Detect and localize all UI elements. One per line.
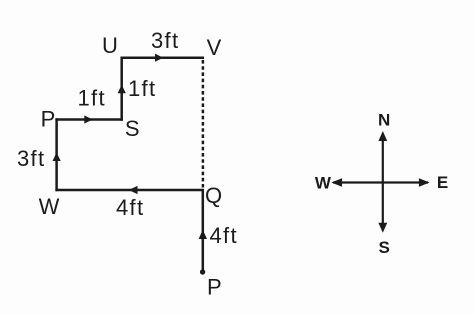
svg-text:E: E (437, 173, 448, 192)
compass horizontal line (333, 181, 428, 183)
svg-text:S: S (379, 238, 390, 257)
wire P(left) to S (55, 118, 123, 121)
svg-text:S: S (125, 116, 140, 141)
arrow right on U-V (155, 54, 163, 62)
svg-text:V: V (207, 35, 222, 60)
svg-text:3ft: 3ft (17, 146, 45, 171)
wire W to P(left) (55, 118, 58, 191)
wire S to U (120, 57, 123, 121)
svg-text:Q: Q (205, 183, 222, 208)
arrow up on P-Q (199, 230, 207, 239)
compass arrow E (419, 178, 430, 186)
svg-text:4ft: 4ft (116, 195, 144, 220)
compass arrow S (378, 223, 387, 233)
compass arrow W (331, 178, 342, 186)
node P (bottom dot) (200, 269, 205, 274)
svg-text:W: W (315, 174, 332, 193)
arrow right on P-S (84, 115, 92, 123)
svg-text:1ft: 1ft (78, 86, 106, 111)
svg-text:4ft: 4ft (210, 223, 238, 248)
wire U to V (121, 56, 205, 59)
wire Q to W (55, 189, 204, 192)
svg-text:P: P (207, 275, 222, 300)
svg-text:N: N (378, 111, 390, 130)
svg-text:W: W (39, 194, 60, 219)
arrow up on W-P (53, 153, 61, 162)
dashed wire V to Q (202, 60, 205, 188)
compass vertical line (382, 134, 384, 231)
arrow up on S-U (118, 85, 126, 93)
wire P(bottom) to Q (202, 189, 205, 272)
svg-text:1ft: 1ft (128, 76, 156, 101)
svg-text:3ft: 3ft (151, 28, 179, 53)
svg-text:U: U (102, 33, 118, 58)
arrow left on Q-W (129, 186, 138, 194)
compass arrow N (378, 131, 387, 141)
svg-text:P: P (41, 107, 56, 132)
